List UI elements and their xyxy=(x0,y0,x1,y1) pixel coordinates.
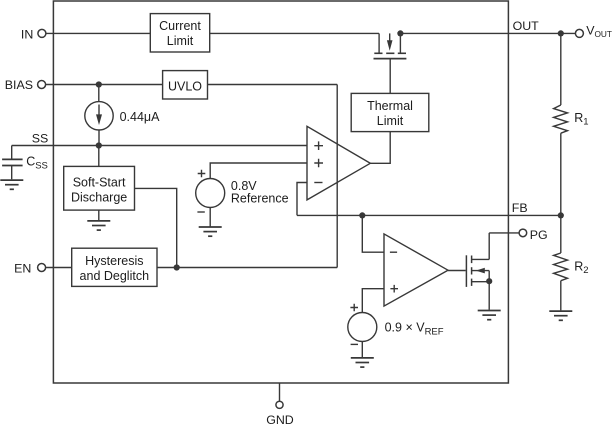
wire comparator plus input to 0.9 reference xyxy=(362,289,384,313)
pin BIAS terminal xyxy=(38,81,46,89)
wire SS rail xyxy=(12,145,307,147)
wire op-amp output to Thermal Limit xyxy=(370,132,390,164)
wire current source to SS rail xyxy=(98,130,100,146)
current source I1 xyxy=(85,102,113,130)
svg-text:IN: IN xyxy=(21,27,33,41)
ground under Soft-Start Discharge xyxy=(87,221,110,230)
svg-text:CSS: CSS xyxy=(26,155,48,172)
block Thermal Limit xyxy=(351,93,429,131)
svg-text:SS: SS xyxy=(32,131,49,145)
op-amp minus input symbol xyxy=(314,182,322,184)
pin EN terminal xyxy=(38,264,46,272)
svg-text:UVLO: UVLO xyxy=(168,79,202,93)
plus of 0.8V reference xyxy=(198,170,206,178)
wire IN to Current Limit xyxy=(46,32,150,34)
comparator plus symbol xyxy=(390,285,398,293)
transistor Q1 pass PMOS xyxy=(374,33,407,58)
svg-text:OUT: OUT xyxy=(513,19,540,33)
ground under NMOS xyxy=(478,311,501,320)
wire OUT rail xyxy=(401,32,576,34)
svg-text:Current: Current xyxy=(159,19,201,33)
svg-text:PG: PG xyxy=(530,228,548,242)
node BIAS junction dot xyxy=(96,81,102,87)
wire Current Limit to pass FET xyxy=(210,32,379,34)
ground under CSS xyxy=(0,180,23,189)
svg-text:R2: R2 xyxy=(574,259,588,276)
wire NMOS drain to PG xyxy=(489,232,519,234)
svg-text:Limit: Limit xyxy=(167,34,194,48)
wire OUT to R1 xyxy=(560,33,562,105)
voltage reference 0.9 x VREF xyxy=(348,313,377,342)
svg-text:VOUT: VOUT xyxy=(586,24,612,40)
pin IN terminal xyxy=(38,29,46,37)
svg-text:Thermal: Thermal xyxy=(367,99,413,113)
node FB junction dot comparator xyxy=(359,212,365,218)
block Current Limit xyxy=(150,14,209,52)
svg-text:GND: GND xyxy=(266,413,294,424)
minus of 0.8V reference xyxy=(197,211,204,213)
voltage reference 0.8V xyxy=(196,163,307,227)
wire Soft-Start Discharge to ground xyxy=(98,210,100,220)
wire R2 to ground xyxy=(560,281,562,311)
node FET drain junction dot xyxy=(397,30,403,36)
wire enable net vertical xyxy=(336,85,338,268)
node SS junction dot xyxy=(96,142,102,148)
wire Soft-Start Discharge output to EN net xyxy=(135,188,177,267)
wire SS node to Soft-Start Discharge xyxy=(98,146,100,167)
wire Hysteresis output to enable net xyxy=(157,267,337,269)
wire 0.9 reference to ground xyxy=(361,342,363,358)
terminal PG xyxy=(519,229,527,237)
svg-text:Hysteresis: Hysteresis xyxy=(85,254,143,268)
svg-text:EN: EN xyxy=(14,261,31,275)
svg-text:Reference: Reference xyxy=(231,191,289,205)
resistor R2 xyxy=(554,253,568,281)
svg-text:Limit: Limit xyxy=(377,114,404,128)
node EN net junction dot xyxy=(174,264,180,270)
minus of 0.9 reference xyxy=(351,343,358,345)
svg-text:BIAS: BIAS xyxy=(5,78,33,92)
ground under 0.9 reference xyxy=(351,358,374,367)
transistor Q2 NMOS open drain xyxy=(466,233,489,310)
wire comparator minus input to FB xyxy=(362,215,384,252)
wire Thermal Limit to FET gate xyxy=(389,59,391,93)
svg-text:Discharge: Discharge xyxy=(71,190,127,204)
resistor R1 xyxy=(554,105,568,133)
node OUT junction dot xyxy=(558,30,564,36)
svg-text:0.9 × VREF: 0.9 × VREF xyxy=(385,321,444,338)
wire R1 to FB node xyxy=(560,133,562,215)
op-amp plus input 1 symbol xyxy=(314,141,323,150)
wire GND pin stem xyxy=(279,383,281,401)
svg-text:FB: FB xyxy=(512,201,528,215)
wire UVLO to enable net corner xyxy=(208,84,338,86)
terminal VOUT xyxy=(575,29,583,37)
plus of 0.9 reference xyxy=(350,304,358,312)
node FB junction dot divider xyxy=(558,212,564,218)
svg-text:Soft-Start: Soft-Start xyxy=(73,175,126,189)
capacitor CSS xyxy=(2,146,23,180)
op-amp U1 error amplifier xyxy=(307,126,370,200)
wire comparator output to NMOS gate xyxy=(448,270,466,272)
comparator minus symbol xyxy=(390,251,397,253)
block Hysteresis and Deglitch xyxy=(72,248,157,286)
wire EN to Hysteresis block xyxy=(46,267,72,269)
wire BIAS to UVLO xyxy=(46,84,163,86)
op-amp plus input 2 symbol xyxy=(314,159,323,168)
block Soft-Start Discharge xyxy=(64,166,135,210)
svg-text:and Deglitch: and Deglitch xyxy=(80,269,150,283)
ground under 0.8V reference xyxy=(199,227,222,236)
wire op-amp minus input to FB xyxy=(297,183,307,216)
node NMOS source junction dot xyxy=(486,278,492,284)
wire BIAS to current source xyxy=(98,85,100,102)
terminal GND xyxy=(276,401,283,408)
svg-text:R1: R1 xyxy=(574,111,588,128)
comparator U2 xyxy=(384,234,448,306)
svg-text:0.44μA: 0.44μA xyxy=(120,110,161,124)
block UVLO xyxy=(163,71,208,99)
wire FB node to R2 xyxy=(560,215,562,253)
IC outer boundary box xyxy=(53,1,508,383)
ground under R2 xyxy=(549,311,572,320)
wire FB rail xyxy=(297,214,561,216)
